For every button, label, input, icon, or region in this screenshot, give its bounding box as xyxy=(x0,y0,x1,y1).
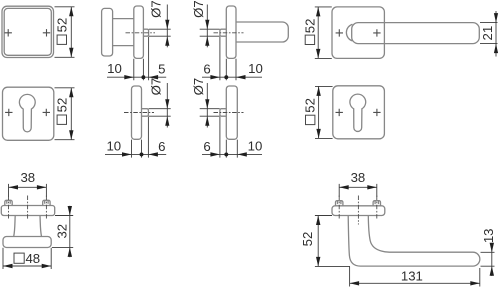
svg-text:10: 10 xyxy=(107,61,122,76)
knob I dim 48 arrow right xyxy=(42,264,52,268)
rosette G dia7 arrow down xyxy=(205,99,209,109)
rosette H (cylinder, row2 right) xyxy=(333,86,385,139)
pin C centerline xyxy=(214,32,244,34)
rosette A dim arrow down xyxy=(69,48,73,58)
pin C bottom extension lines xyxy=(220,37,236,81)
lever D dim 21 arrow down xyxy=(494,13,498,23)
svg-text:10: 10 xyxy=(248,139,263,154)
lever J handle outline xyxy=(348,216,480,267)
rosette G bottom extension lines xyxy=(220,117,237,158)
lever J dim 131 arrow right xyxy=(470,281,480,285)
knob I dim 38 arrow right xyxy=(37,185,47,189)
knob I dim 32 line xyxy=(69,206,71,257)
lever J rosette plate xyxy=(332,206,385,216)
knob I dim 32 arrow up xyxy=(68,247,72,257)
rosette E label square xyxy=(57,115,66,124)
knob I left screw xyxy=(5,200,12,205)
rosette E (cylinder, row2 left) xyxy=(3,87,54,140)
lever top view D rosette xyxy=(332,7,384,59)
lever D dim 52 extension lines xyxy=(315,7,332,59)
svg-text:52: 52 xyxy=(303,98,318,113)
svg-text:10: 10 xyxy=(106,139,121,154)
lever D label square xyxy=(305,35,314,44)
rosette G plate xyxy=(226,86,237,139)
lever J dim 13 extension lines xyxy=(481,252,495,266)
svg-text:6: 6 xyxy=(158,139,165,154)
svg-text:52: 52 xyxy=(54,18,69,33)
knob B dia7 arrow up xyxy=(165,36,169,46)
pin C dia7 extension lines xyxy=(200,29,220,36)
svg-text:6: 6 xyxy=(203,139,210,154)
rosette F dia7 dim line xyxy=(166,83,168,128)
pin C arrow right to stub xyxy=(210,75,220,79)
svg-text:Ø7: Ø7 xyxy=(149,78,164,96)
knob B rosette plate xyxy=(134,6,144,58)
rosette F arrow left to stub xyxy=(148,152,158,156)
rosette A left screw cross xyxy=(5,29,12,36)
knob I centerlines xyxy=(9,196,47,220)
rosette E right cross xyxy=(43,109,50,116)
rosette F bottom extension lines xyxy=(132,117,149,158)
knob I dim 32 arrow down xyxy=(68,206,72,216)
knob I dim 38 arrow left xyxy=(9,185,19,189)
knob B dia7 arrow down xyxy=(165,20,169,30)
rosette side view G spindle stub xyxy=(220,109,226,117)
rosette G dia7 dim line xyxy=(206,83,208,128)
svg-text:6: 6 xyxy=(203,61,210,76)
lever D rosette cross xyxy=(336,29,343,36)
knob B neck xyxy=(113,19,134,46)
lever J dim 52 arrow down xyxy=(316,257,320,267)
rosette A (blind, top-left) outer xyxy=(2,6,54,57)
svg-text:Ø7: Ø7 xyxy=(148,0,163,18)
lever J dim 38 line xyxy=(339,186,377,188)
rosette H right cross xyxy=(373,109,380,116)
pin side view C spindle stub xyxy=(220,29,226,36)
lever J dim 52 arrow up xyxy=(316,216,320,226)
rosette H dim 52 line xyxy=(318,86,320,138)
pin C arrow left to plate xyxy=(236,75,246,79)
rosette F spindle stub xyxy=(142,109,149,117)
rosette E dim 52 line xyxy=(70,88,72,140)
lever D dim 52 arrow down xyxy=(316,49,320,59)
knob I base xyxy=(3,237,51,248)
rosette A dim 52 line xyxy=(70,7,72,58)
svg-text:32: 32 xyxy=(54,224,69,239)
knob I dim 38 extension lines xyxy=(9,184,47,197)
rosette E keyhole xyxy=(19,94,35,132)
knob I right screw xyxy=(43,200,50,205)
knob B dia7 extension lines xyxy=(149,29,171,36)
rosette A label square xyxy=(57,35,66,44)
knob B chain dot xyxy=(141,75,145,79)
pin C dia7 arrow down xyxy=(205,20,209,30)
svg-text:38: 38 xyxy=(20,170,35,185)
rosette H dim 52 extension lines xyxy=(315,86,333,138)
rosette F chain dot xyxy=(140,152,144,156)
lever J dim 52 extension lines xyxy=(315,216,350,267)
pin C bottom dim line xyxy=(202,76,262,78)
knob B arrow right to plate xyxy=(124,75,134,79)
svg-text:52: 52 xyxy=(54,98,69,113)
svg-text:Ø7: Ø7 xyxy=(191,0,206,18)
svg-text:10: 10 xyxy=(248,61,263,76)
rosette E left cross xyxy=(5,109,12,116)
rosette G arrow left to plate xyxy=(237,152,247,156)
rosette E dim arrow down xyxy=(69,130,73,140)
pin C dia7 dim line xyxy=(206,5,208,48)
rosette H label square xyxy=(306,115,315,124)
rosette H dim arrow down xyxy=(316,129,320,139)
lever D dim 52 arrow up xyxy=(316,7,320,17)
svg-text:5: 5 xyxy=(158,61,165,76)
rosette E dim arrow up xyxy=(69,88,73,98)
lever D dim 21 extension lines xyxy=(480,23,498,44)
pin C rosette plate xyxy=(226,6,236,58)
lever J dim 13 arrow up xyxy=(490,266,494,276)
lever J right screw xyxy=(373,201,380,206)
pin C bar xyxy=(236,22,288,42)
lever D dim 52 line xyxy=(317,7,319,59)
rosette G chain dot xyxy=(224,152,228,156)
svg-text:52: 52 xyxy=(300,232,315,247)
rosette side view F plate xyxy=(132,86,142,139)
lever J dim 52 line xyxy=(317,216,319,267)
knob side view B cap xyxy=(102,8,113,56)
rosette F bottom dim line xyxy=(105,153,166,155)
knob B arrow left to stub end xyxy=(149,75,159,79)
svg-text:38: 38 xyxy=(351,170,366,185)
svg-text:Ø7: Ø7 xyxy=(191,78,206,96)
knob B bottom dim line xyxy=(107,76,166,78)
rosette G bottom dim line xyxy=(202,153,262,155)
lever J dim 131 extension lines xyxy=(350,267,480,287)
rosette F centerline xyxy=(124,112,154,114)
knob B bottom extension lines xyxy=(134,37,149,81)
rosette A dim 52 extension lines xyxy=(55,7,75,58)
lever J dim 38 extension lines xyxy=(339,184,377,197)
lever J dim 38 arrow right xyxy=(367,185,377,189)
lever J left screw xyxy=(336,201,343,206)
pin C dia7 arrow up xyxy=(205,36,209,46)
lever J dim 131 arrow left xyxy=(350,281,360,285)
lever J dim 13 arrow down xyxy=(490,243,494,253)
pin C chain dot xyxy=(224,75,228,79)
rosette F dia7 arrow up xyxy=(165,116,169,126)
svg-text:52: 52 xyxy=(302,19,317,34)
rosette A dim arrow up xyxy=(69,7,73,16)
knob B centerline xyxy=(126,32,156,34)
knob I label square xyxy=(14,253,24,263)
knob I neck xyxy=(14,216,42,237)
rosette G centerline xyxy=(214,112,244,114)
lever D bar cross xyxy=(373,29,380,36)
lever J dim 38 arrow left xyxy=(339,185,349,189)
svg-text:48: 48 xyxy=(25,251,40,266)
knob I dim 48 extension lines xyxy=(3,248,51,269)
knob I dim 38 line xyxy=(9,186,47,188)
rosette G dia7 extension lines xyxy=(200,109,220,117)
rosette A right screw cross xyxy=(43,29,50,36)
svg-text:131: 131 xyxy=(401,268,423,283)
rosette F arrow right to plate xyxy=(122,152,132,156)
rosette H dim arrow up xyxy=(316,86,320,96)
lever J centerlines xyxy=(339,196,377,225)
rosette G arrow right to stub xyxy=(210,152,220,156)
knob B dia7 dim line xyxy=(166,5,168,48)
svg-text:21: 21 xyxy=(480,26,495,41)
lever D dim 21 arrow up xyxy=(494,44,498,54)
rosette H keyhole xyxy=(350,94,366,131)
rosette H left cross xyxy=(336,109,343,116)
lever D grip bar xyxy=(352,23,480,44)
rosette A inner xyxy=(4,8,51,55)
rosette E dim 52 extension lines xyxy=(55,88,75,140)
lever J dim 131 line xyxy=(350,282,480,284)
knob B spindle stub xyxy=(143,29,148,36)
svg-text:13: 13 xyxy=(481,228,496,243)
rosette G dia7 arrow up xyxy=(205,116,209,126)
knob I dim 32 extension lines xyxy=(52,216,73,248)
knob I rosette plate xyxy=(1,206,54,216)
rosette F dia7 arrow down xyxy=(165,99,169,109)
knob I dim 48 arrow left xyxy=(3,264,13,268)
lever J dim 13 line xyxy=(491,243,493,276)
lever D dim 21 line xyxy=(495,11,497,57)
lever D neck arc xyxy=(346,24,352,41)
knob I dim 48 line xyxy=(3,265,51,267)
rosette F dia7 extension lines xyxy=(149,109,171,117)
